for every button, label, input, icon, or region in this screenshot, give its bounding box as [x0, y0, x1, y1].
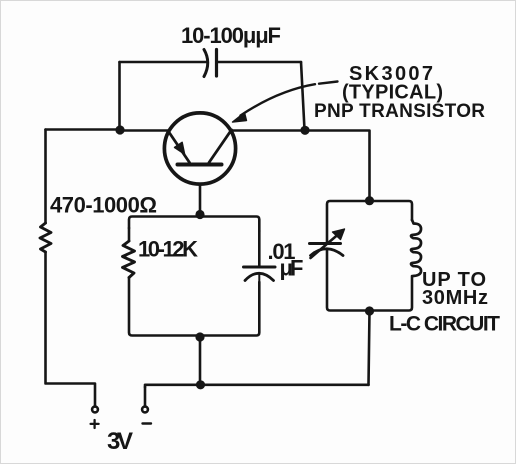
capacitor C2 curved plate [245, 273, 274, 280]
callout curve to transistor [241, 84, 316, 115]
svg-text:L-C CIRCUIT: L-C CIRCUIT [389, 313, 500, 336]
capacitor C2 straight plate [244, 266, 276, 269]
capacitor C2 lead down [258, 274, 260, 282]
capacitor C1 straight plate [215, 50, 218, 77]
resistor R2 zigzag [123, 241, 135, 278]
node LC-top junction dot [365, 196, 374, 205]
inner box top edge [129, 217, 259, 232]
transistor Q1 emitter arrow [175, 142, 185, 154]
bottom bus wire [145, 385, 369, 387]
inner box left edge lower and bottom edge [129, 278, 259, 336]
node base-top junction dot [195, 210, 204, 219]
battery minus sign [143, 422, 152, 424]
wire inner box bottom node down to bus [199, 337, 202, 385]
LC box left edge below C3 down to bottom edge [327, 250, 412, 311]
wire node A to left rail [46, 128, 121, 131]
node B junction dot [300, 126, 309, 135]
battery plus sign [91, 420, 99, 428]
callout arrowhead [233, 113, 247, 123]
transistor Q1 body circle [164, 113, 235, 184]
node bus junction dot [196, 380, 205, 389]
inner box left edge upper [128, 228, 131, 241]
svg-text:10-12K: 10-12K [138, 237, 198, 262]
wire left vertical from top wire down to node A [118, 62, 121, 130]
battery minus terminal circle [142, 407, 148, 413]
battery minus stub [144, 387, 147, 407]
variable capacitor C3 arrow line [311, 235, 339, 259]
wire C1 right to top-right corner [217, 61, 302, 64]
LC box top edge [327, 201, 412, 242]
svg-text:30MHz: 30MHz [422, 287, 488, 309]
svg-text:PNP TRANSISTOR: PNP TRANSISTOR [314, 101, 485, 122]
wire LC bottom node down to bus [369, 311, 370, 385]
capacitor C2 lead from box top [258, 231, 261, 267]
wire top-left horizontal to C1 [120, 61, 208, 64]
node box-bottom junction dot [195, 332, 204, 341]
wire transistor collector to node B [232, 129, 306, 132]
callout dash [319, 82, 338, 84]
svg-text:10-100μμF: 10-100μμF [181, 23, 281, 48]
node LC-bottom junction dot [365, 306, 374, 315]
svg-text:470-1000Ω: 470-1000Ω [50, 193, 157, 218]
capacitor C1 curved plate [204, 50, 208, 77]
variable capacitor C3 curved plate [311, 249, 344, 256]
wire node A to transistor emitter [120, 129, 169, 132]
battery plus terminal circle [92, 407, 98, 413]
variable capacitor C3 arrowhead [333, 229, 345, 240]
node A junction dot [115, 125, 124, 134]
transistor Q1 base bar [178, 163, 222, 167]
transistor Q1 emitter lead [169, 132, 190, 163]
left rail down to resistor R1 [44, 130, 47, 224]
wire right vertical from top wire down to node B [301, 62, 305, 130]
resistor R1 zigzag [40, 223, 51, 252]
inductor L1 coil [411, 220, 421, 276]
transistor Q1 base lead down [199, 185, 202, 214]
wire node B right then down to LC top [305, 131, 370, 201]
left rail below R1 down to battery plus [46, 252, 96, 407]
transistor Q1 collector lead [209, 130, 232, 163]
svg-text:3V: 3V [107, 428, 133, 455]
svg-text:μF: μF [280, 256, 304, 281]
variable capacitor C3 straight plate [310, 242, 341, 245]
